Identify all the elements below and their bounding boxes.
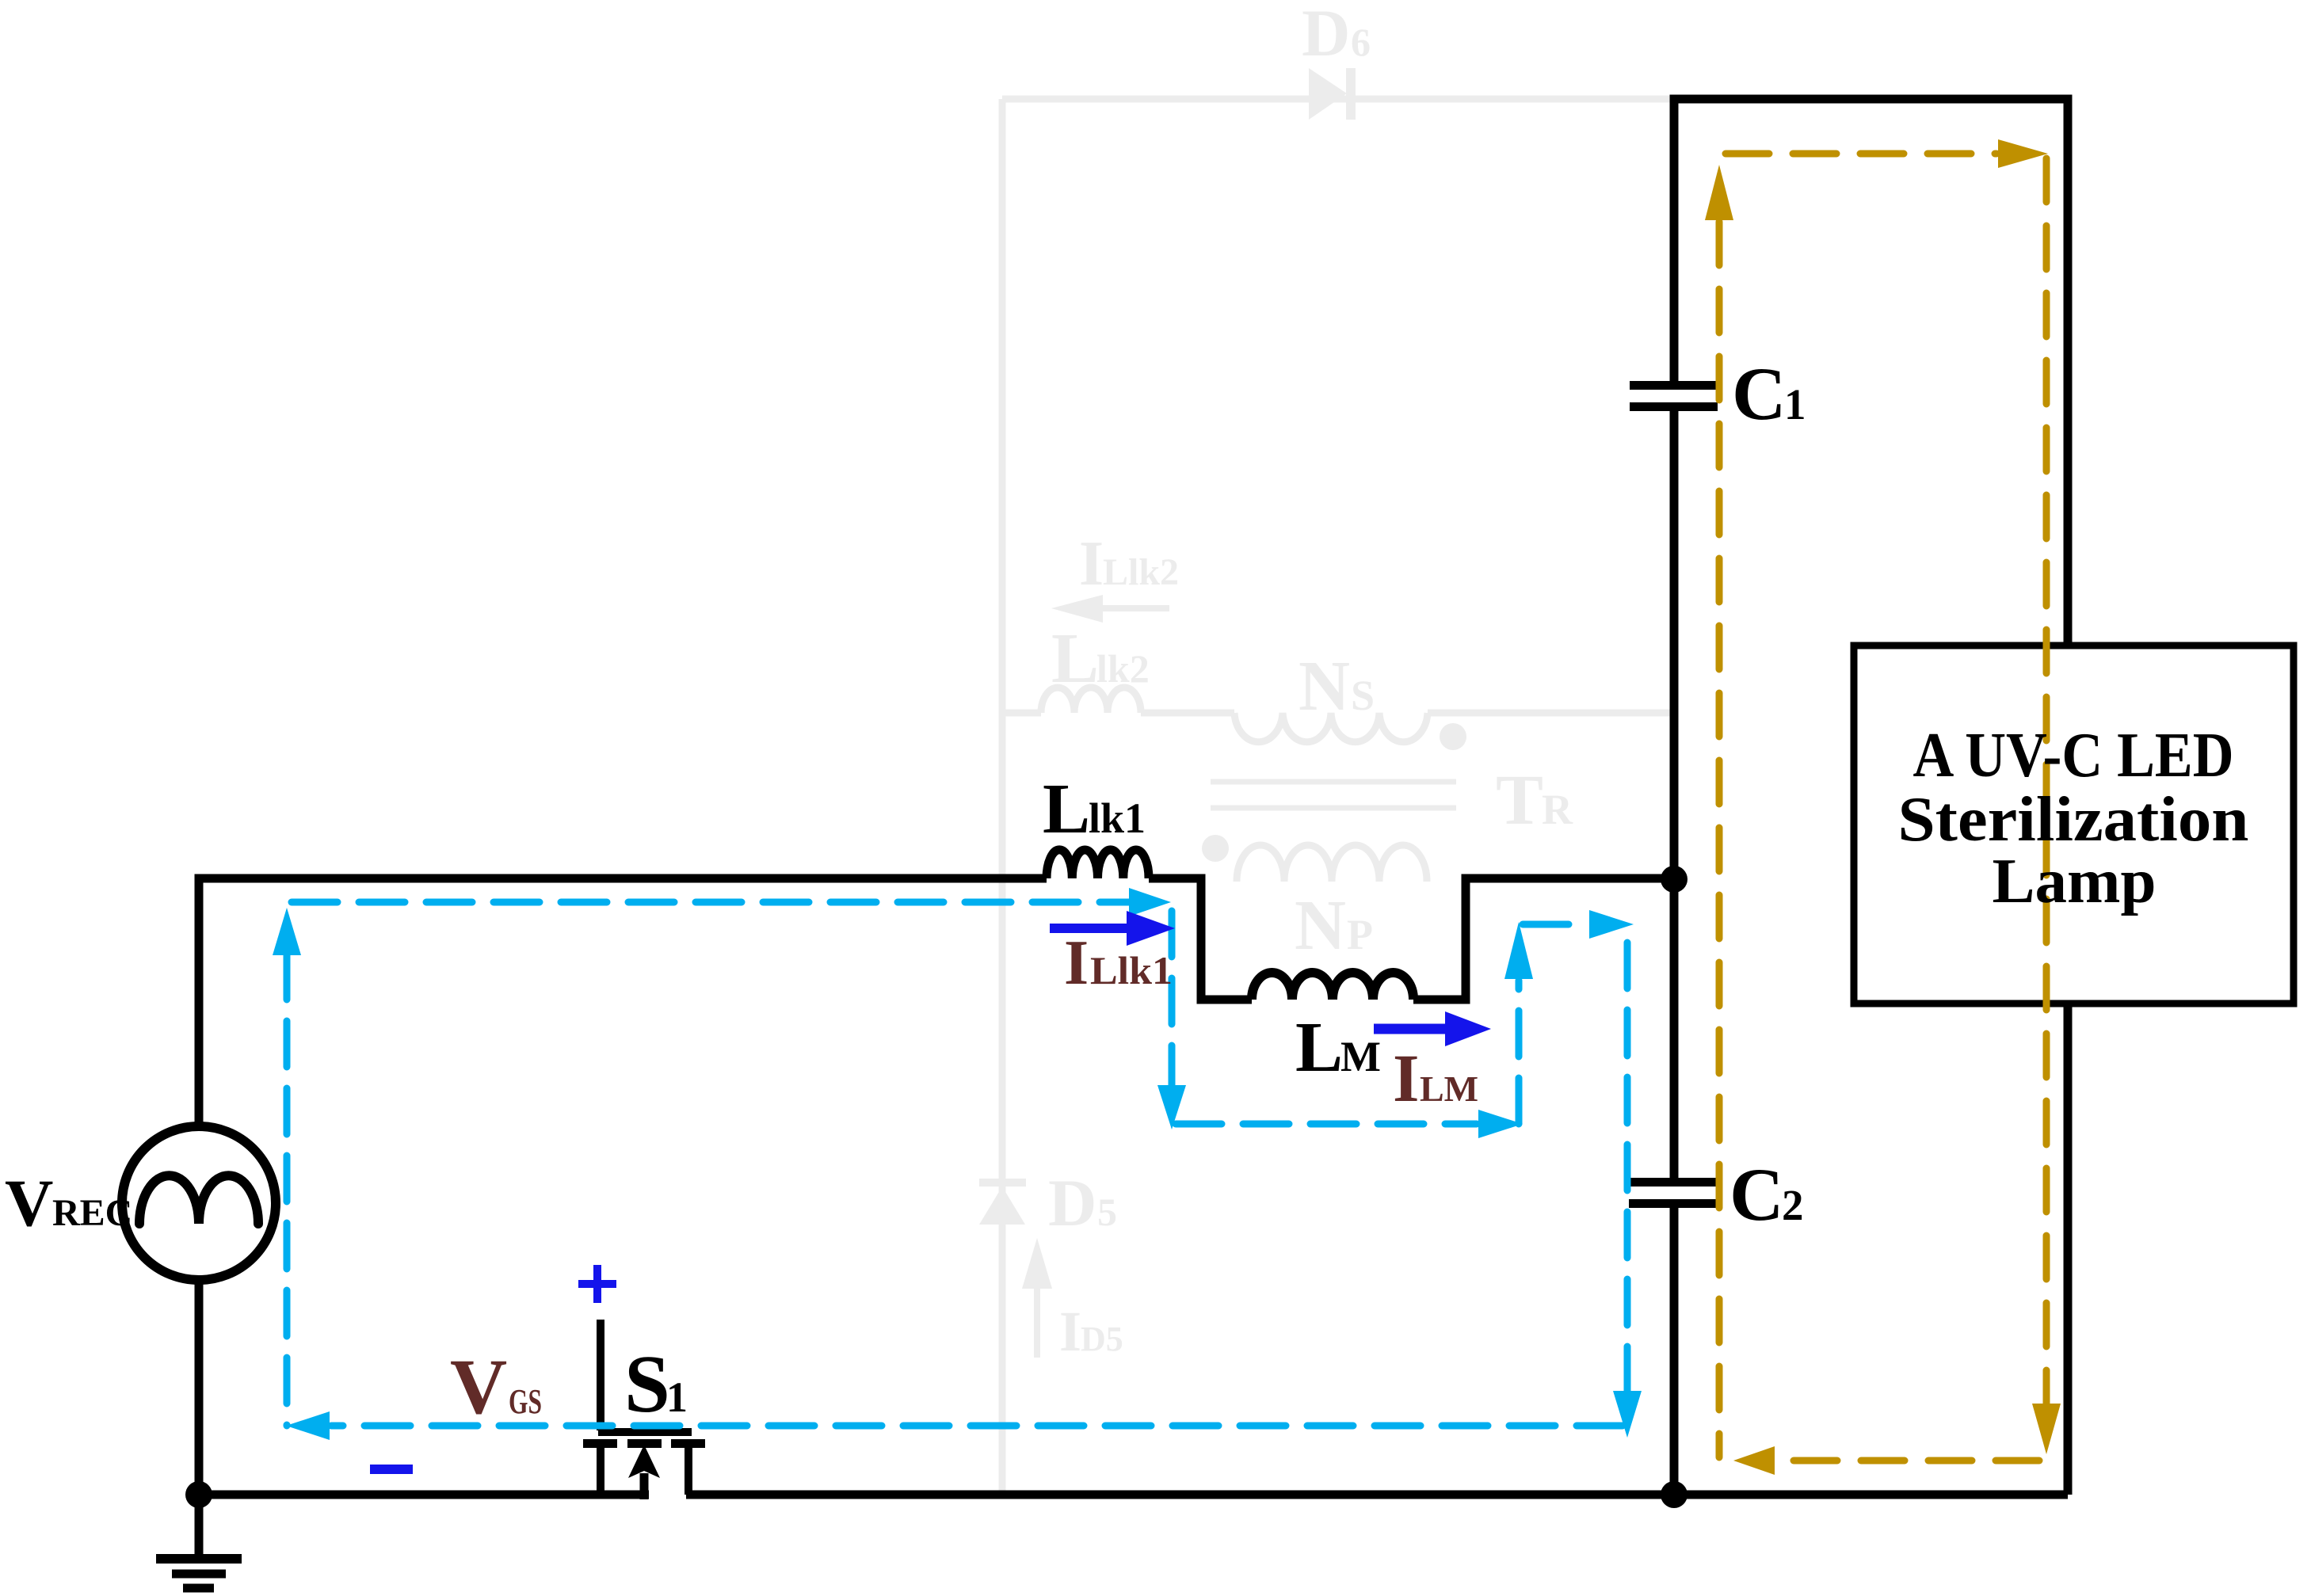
svg-text:I: I xyxy=(1393,1040,1419,1116)
svg-text:lk1: lk1 xyxy=(1089,794,1146,842)
svg-text:5: 5 xyxy=(1097,1190,1117,1234)
svg-text:N: N xyxy=(1295,886,1346,965)
svg-text:Llk1: Llk1 xyxy=(1090,948,1173,992)
svg-text:C: C xyxy=(1729,1152,1784,1236)
svg-text:A UV-C LED: A UV-C LED xyxy=(1913,721,2234,790)
svg-text:V: V xyxy=(450,1343,507,1430)
svg-text:D5: D5 xyxy=(1081,1320,1123,1358)
svg-text:REC: REC xyxy=(52,1192,132,1234)
svg-text:V: V xyxy=(5,1166,53,1240)
svg-text:L: L xyxy=(1295,1008,1343,1087)
svg-text:LM: LM xyxy=(1420,1068,1478,1109)
svg-text:D: D xyxy=(1048,1166,1096,1240)
svg-text:R: R xyxy=(1542,786,1573,833)
svg-text:N: N xyxy=(1299,647,1350,726)
svg-text:M: M xyxy=(1340,1033,1381,1080)
svg-text:D: D xyxy=(1302,0,1350,70)
svg-text:S: S xyxy=(624,1339,670,1430)
svg-text:I: I xyxy=(1079,529,1104,599)
svg-text:C: C xyxy=(1732,352,1787,436)
svg-text:1: 1 xyxy=(1784,380,1806,429)
svg-text:6: 6 xyxy=(1351,20,1371,64)
svg-text:Sterilization: Sterilization xyxy=(1898,785,2249,855)
svg-text:GS: GS xyxy=(509,1382,542,1421)
svg-text:I: I xyxy=(1064,928,1089,998)
svg-text:P: P xyxy=(1347,911,1373,958)
svg-text:Llk2: Llk2 xyxy=(1103,551,1179,593)
svg-text:2: 2 xyxy=(1782,1181,1804,1229)
svg-text:Lamp: Lamp xyxy=(1993,847,2157,916)
svg-text:L: L xyxy=(1051,619,1099,698)
svg-text:L: L xyxy=(1043,770,1090,848)
svg-text:I: I xyxy=(1059,1300,1081,1363)
svg-text:lk2: lk2 xyxy=(1096,646,1150,691)
svg-text:1: 1 xyxy=(666,1373,688,1421)
svg-text:T: T xyxy=(1496,761,1543,840)
svg-text:S: S xyxy=(1351,672,1375,719)
